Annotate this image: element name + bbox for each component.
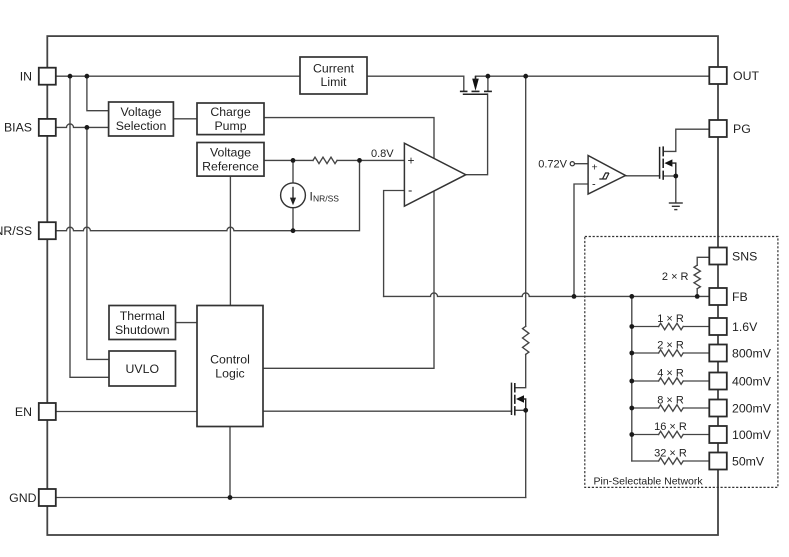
pin 400mV <box>709 373 727 390</box>
node pass FET drain <box>486 74 491 79</box>
pin SNS <box>709 248 727 265</box>
svg-text:NR/SS: NR/SS <box>0 224 32 238</box>
resistor 2xR <box>694 265 700 288</box>
pin 800mV <box>709 345 727 362</box>
block Current Limit <box>300 57 367 94</box>
wire discharge resistor to NMOS drain <box>515 354 526 387</box>
wire GND pin line <box>56 497 526 499</box>
node IN-A <box>68 74 73 79</box>
wire FB line with hops <box>384 293 710 297</box>
comparator U2 <box>588 156 625 195</box>
pin 50mV <box>709 453 727 470</box>
svg-text:Control: Control <box>210 353 250 367</box>
svg-text:Reference: Reference <box>202 160 259 174</box>
node bus 800mV <box>629 351 634 356</box>
resistor 4xR <box>659 378 684 384</box>
wire BIAS pin to Voltage Selection with hop <box>56 124 109 127</box>
wire ladder bus <box>631 296 633 461</box>
wire 4xR to 400mV pin <box>683 380 709 382</box>
pin BIAS <box>39 119 56 136</box>
pin GND <box>39 489 56 506</box>
wire BIAS vertical to UVLO <box>87 127 109 359</box>
node discharge FET source <box>523 408 528 413</box>
wire error amp - input feedback <box>384 191 405 297</box>
wire comparator - input to FB line <box>574 184 588 296</box>
svg-text:Thermal: Thermal <box>120 309 165 323</box>
svg-text:2 × R: 2 × R <box>662 271 689 283</box>
node PG FET source <box>673 174 678 179</box>
wire PG NMOS source to ground <box>663 176 676 203</box>
svg-text:Voltage: Voltage <box>120 105 161 119</box>
wire Current Limit to pass FET source <box>367 76 464 91</box>
wire Charge Pump output to error amp top <box>264 118 434 159</box>
resistor 32xR <box>659 458 684 464</box>
wire 0.8V node to error amp + input <box>337 159 404 161</box>
comparator 0.72V terminal <box>570 162 574 166</box>
wire 2xR to FB node <box>696 289 698 297</box>
pin OUT <box>709 67 727 84</box>
wire pass FET bulk/drain to OUT pin <box>476 75 710 77</box>
svg-text:2 × R: 2 × R <box>657 340 684 352</box>
svg-text:Shutdown: Shutdown <box>115 323 170 337</box>
svg-text:100mV: 100mV <box>732 428 772 442</box>
svg-text:IN: IN <box>20 70 32 84</box>
pin 100mV <box>709 426 727 443</box>
wire node VIN vertical B to Voltage Selection <box>87 76 109 111</box>
wire Thermal Shutdown to Control Logic <box>176 322 198 324</box>
block Control Logic <box>197 306 263 427</box>
node FB 2xR <box>695 294 700 299</box>
resistor reference filter <box>313 157 337 163</box>
block Voltage Selection <box>109 102 174 136</box>
svg-text:50mV: 50mV <box>732 454 765 468</box>
wire 8xR to 200mV pin <box>683 407 709 409</box>
block Thermal Shutdown <box>109 306 176 340</box>
node NR/SS <box>291 228 296 233</box>
node 0.8V right <box>357 158 362 163</box>
svg-text:200mV: 200mV <box>732 401 772 415</box>
resistor 8xR <box>659 405 684 411</box>
block UVLO <box>109 351 176 386</box>
wire comparator output to PG NMOS gate <box>626 175 660 177</box>
wire 1xR to 1.6V pin <box>683 326 709 328</box>
wire SNS pin to 2xR resistor <box>697 257 709 265</box>
dashed Pin-Selectable Network box <box>585 237 778 488</box>
wire 0.72V terminal to comparator <box>574 163 588 165</box>
svg-text:FB: FB <box>732 290 748 304</box>
svg-text:PG: PG <box>733 122 751 136</box>
node 0.8V left <box>291 158 296 163</box>
svg-text:GND: GND <box>9 491 36 505</box>
pin 200mV <box>709 400 727 417</box>
svg-text:UVLO: UVLO <box>126 362 160 376</box>
wire 2xR to 800mV pin <box>683 352 709 354</box>
wire ladder row 100mV <box>632 434 659 436</box>
svg-text:0.8V: 0.8V <box>371 148 394 160</box>
wire current source bottom stub <box>292 208 294 231</box>
wire 32xR to 50mV pin <box>683 460 709 462</box>
discharge transistor NMOS channel bars <box>514 383 516 415</box>
pass transistor PMOS bulk arrow <box>472 79 479 91</box>
wire ladder row 800mV <box>632 352 659 354</box>
svg-text:Logic: Logic <box>215 367 244 381</box>
wire current source top stub <box>292 160 294 183</box>
wire Control Logic to GND line <box>229 427 231 498</box>
node BIAS <box>85 125 90 130</box>
svg-text:Current: Current <box>313 61 355 75</box>
svg-text:OUT: OUT <box>733 69 759 83</box>
wire Voltage Reference 0.8V output <box>264 159 313 161</box>
discharge transistor NMOS bulk arrow <box>516 395 524 402</box>
block Charge Pump <box>197 103 264 135</box>
svg-text:+: + <box>408 154 415 168</box>
resistor 16xR <box>659 431 684 437</box>
wire pass FET drain stub <box>487 76 489 91</box>
block Voltage Reference <box>197 143 264 177</box>
svg-text:+: + <box>592 162 598 174</box>
resistor 1xR <box>659 323 684 329</box>
wire ladder row 50mV <box>632 460 659 462</box>
wire EN pin to Control Logic <box>56 411 197 413</box>
pass transistor PMOS channel bars <box>460 90 492 92</box>
svg-text:Pump: Pump <box>214 119 246 133</box>
wire 16xR to 100mV pin <box>683 434 709 436</box>
node OUT branch <box>523 74 528 79</box>
svg-text:Pin-Selectable Network: Pin-Selectable Network <box>594 476 704 488</box>
node bus 200mV <box>629 406 634 411</box>
svg-text:Selection: Selection <box>116 119 167 133</box>
wire error amp output to pass FET gate <box>466 94 488 175</box>
node bus 100mV <box>629 432 634 437</box>
svg-text:SNS: SNS <box>732 249 757 263</box>
wire ladder row 200mV <box>632 407 659 409</box>
svg-text:0.72V: 0.72V <box>538 159 567 171</box>
wire Voltage Selection to Charge Pump <box>173 118 197 120</box>
wire IN pin to Current Limit <box>56 75 300 77</box>
svg-text:Limit: Limit <box>321 75 348 89</box>
wire error amp bottom to Control Logic <box>263 191 434 368</box>
pin 1.6V <box>709 318 727 335</box>
wire Voltage Reference to Control Logic <box>229 176 231 305</box>
pin PG <box>709 120 727 137</box>
svg-text:EN: EN <box>15 405 32 419</box>
svg-text:1.6V: 1.6V <box>732 320 758 334</box>
svg-text:8 × R: 8 × R <box>657 395 684 407</box>
ground symbol <box>669 203 683 210</box>
resistor discharge R <box>523 326 529 354</box>
svg-text:Charge: Charge <box>210 105 250 119</box>
wire ladder row 1.6V <box>632 326 659 328</box>
svg-text:1 × R: 1 × R <box>657 313 684 325</box>
svg-text:BIAS: BIAS <box>4 121 32 135</box>
node bus 1.6V <box>629 324 634 329</box>
current source INR/SS <box>281 183 306 208</box>
wire Control Logic to discharge NMOS gate <box>263 410 512 412</box>
discharge transistor NMOS gate bar <box>511 383 513 415</box>
node GND logic <box>228 495 233 500</box>
wire ladder row 400mV <box>632 380 659 382</box>
PG transistor NMOS bulk arrow <box>664 159 672 166</box>
wire OUT node down to discharge resistor <box>525 76 527 326</box>
pass transistor PMOS gate bar <box>463 93 488 95</box>
node IN-B <box>85 74 90 79</box>
wire NR/SS pin to 0.8V node with hops <box>56 160 360 230</box>
pin FB <box>709 288 727 305</box>
svg-text:16 × R: 16 × R <box>654 421 687 433</box>
comparator hysteresis symbol <box>599 173 609 179</box>
pin NR/SS <box>39 222 56 239</box>
svg-text:32 × R: 32 × R <box>654 448 687 460</box>
wire PG NMOS drain to PG pin <box>663 129 709 151</box>
pin IN <box>39 68 56 85</box>
resistor 2xR ladder <box>659 350 684 356</box>
wire node VIN vertical A to UVLO <box>70 76 109 377</box>
svg-text:-: - <box>408 183 412 198</box>
svg-text:-: - <box>592 179 596 191</box>
pin EN <box>39 403 56 420</box>
chip boundary <box>47 36 718 535</box>
PG transistor NMOS channel bars <box>662 146 664 179</box>
svg-text:Voltage: Voltage <box>210 146 251 160</box>
PG transistor NMOS gate bar <box>659 147 661 179</box>
svg-text:400mV: 400mV <box>732 374 772 388</box>
node FB comparator <box>572 294 577 299</box>
svg-text:NR/SS: NR/SS <box>313 194 339 204</box>
svg-text:4 × R: 4 × R <box>657 368 684 380</box>
wire discharge NMOS source to GND line <box>515 410 526 497</box>
node FB bus <box>629 294 634 299</box>
svg-text:800mV: 800mV <box>732 346 772 360</box>
op-amp error amplifier <box>404 143 465 206</box>
node bus 400mV <box>629 379 634 384</box>
